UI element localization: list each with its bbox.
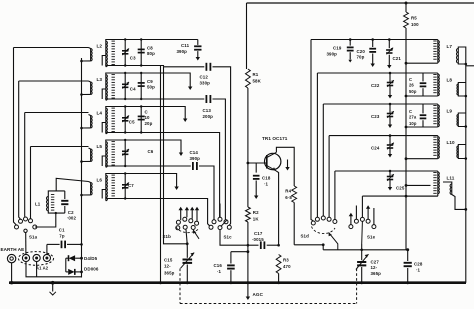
terminal A1: [33, 254, 40, 261]
switch S1e contacts: [349, 225, 353, 229]
wire: L8 row drop to S1d: [316, 73, 318, 217]
wire: S1b wiper to C15: [186, 229, 187, 243]
wire: L7 row top: [311, 39, 438, 41]
wire: C27 gang dashed link: [356, 269, 358, 304]
transformer L2: [91, 49, 93, 61]
capacitor C9: [140, 73, 142, 99]
svg-text:12-: 12-: [164, 264, 171, 269]
wire: L7 row bottom to HT bus: [437, 62, 439, 63]
capacitor C17 .0015: [247, 244, 250, 247]
wire: L4 top rail to chassis arrow: [125, 107, 185, 119]
wire: L11 row top: [335, 170, 438, 172]
svg-text:C: C: [409, 77, 412, 82]
svg-text:D4/D5: D4/D5: [84, 256, 98, 261]
wire: supply drop to R1 and base: [246, 3, 248, 69]
wire: L6 top rail to chassis arrow: [125, 174, 176, 187]
svg-text:L11: L11: [447, 176, 455, 181]
wire: L4 bottom rail to S1c: [106, 133, 219, 218]
wire: L2 top rail to C11: [125, 39, 198, 41]
wire: aerial selector bus 2: [19, 81, 21, 219]
capacitor C19 390p: [349, 40, 351, 46]
svg-text:L8: L8: [447, 78, 453, 83]
svg-text:C: C: [409, 109, 412, 114]
wire: HT bus: [405, 28, 407, 250]
wire: L10 row bottom to HT bus: [437, 157, 439, 159]
wire: rail to L2 primary: [14, 47, 89, 49]
svg-text:C23: C23: [371, 114, 380, 119]
svg-text:C17: C17: [254, 231, 263, 236]
trimmer capacitor C24: [389, 136, 391, 145]
svg-text:80p: 80p: [147, 51, 155, 56]
wire: second drop to S1b output: [164, 67, 188, 244]
capacitor C14 390p: [192, 162, 194, 170]
svg-text:S1c: S1c: [224, 234, 233, 239]
trimmer capacitor C21: [388, 40, 390, 49]
svg-text:L6: L6: [97, 178, 103, 183]
svg-text:EARTH AE: EARTH AE: [1, 247, 25, 252]
wire: AGC feed: [247, 252, 249, 297]
wire: output bus: [465, 47, 467, 283]
transistor TR1 OC171: [265, 153, 281, 169]
svg-text:L10: L10: [447, 140, 456, 145]
svg-text:L5: L5: [97, 144, 103, 149]
svg-text:20p: 20p: [145, 121, 153, 126]
transformer L5: [91, 149, 93, 161]
capacitor C27a 10p in L9: [422, 104, 424, 113]
wire: oscillator switch common line: [323, 249, 408, 251]
wire: C15 gang dashed link: [179, 269, 181, 304]
svg-text:C27: C27: [371, 259, 380, 264]
svg-text:R2: R2: [253, 210, 259, 215]
wire: L5 top rail to chassis arrow: [125, 140, 181, 153]
svg-text:L1: L1: [35, 201, 41, 206]
wire: L1 riser: [55, 190, 57, 192]
wire: output stub to edge: [466, 65, 474, 67]
wire: L2 bottom rail: [106, 65, 160, 67]
svg-text:C6: C6: [148, 149, 154, 154]
wire: earth to chassis: [11, 263, 13, 283]
svg-text:C16: C16: [214, 263, 223, 268]
resistor R4 6.8 in collector line: [292, 186, 297, 203]
svg-text:26: 26: [409, 83, 414, 88]
wire: R4 to S1d node: [294, 245, 323, 250]
wire: rail to L5 primary: [31, 146, 89, 148]
wire: L9 row bottom to HT bus: [437, 126, 439, 128]
wire: base node to R2: [247, 163, 249, 207]
svg-text:A1 A2: A1 A2: [36, 265, 49, 270]
wire: L10 row top: [329, 135, 438, 137]
svg-text:C24: C24: [371, 146, 380, 151]
wire: A2 to C1 wire: [46, 244, 48, 254]
variable capacitor C27 12-365p: [361, 244, 363, 260]
svg-text:C20: C20: [357, 49, 366, 54]
capacitor C28 .1: [407, 250, 409, 261]
svg-text:365p: 365p: [164, 270, 175, 275]
switch S1e contact risers: [350, 216, 352, 225]
wire: top supply rail: [247, 2, 474, 4]
trimmer capacitor C3: [124, 40, 126, 66]
svg-text:C13: C13: [203, 108, 212, 113]
wire: aerial selector bus 1: [14, 48, 17, 226]
wire: rail to L4 primary: [25, 112, 89, 114]
switch S1c rotor: [218, 226, 222, 230]
svg-text:R1: R1: [253, 72, 259, 77]
wire: L9 row drop to S1d: [322, 104, 324, 216]
svg-text:AGC: AGC: [253, 292, 264, 297]
wire: S1c wiper output: [220, 230, 248, 246]
transformer L10: [433, 136, 436, 138]
wire: jog to C12 wire: [161, 66, 164, 67]
coil L9 secondary winding: [457, 115, 458, 126]
svg-text:C9: C9: [147, 79, 153, 84]
wire: primary return bus: [81, 58, 83, 278]
svg-text:12-: 12-: [371, 265, 378, 270]
wire: L8 row bottom to HT bus: [437, 95, 439, 97]
svg-text:200p: 200p: [203, 114, 214, 119]
terminal A: [22, 254, 29, 261]
trimmer capacitor C22: [389, 73, 391, 82]
transformer L8: [433, 74, 436, 76]
capacitor C20 70p: [372, 40, 374, 48]
svg-text:27a: 27a: [409, 115, 417, 120]
diode D5: [66, 271, 68, 273]
svg-text:C2: C2: [68, 210, 74, 215]
wire: L11 row bottom to HT bus: [437, 194, 439, 196]
switch S1b contact risers with arrows: [180, 210, 182, 220]
capacitor C18 .1: [255, 163, 257, 173]
svg-text:C4: C4: [130, 87, 136, 92]
diode D4: [66, 257, 69, 259]
wire: collector to oscillator line: [293, 203, 295, 245]
svg-text:C21: C21: [393, 56, 402, 61]
svg-text:C25: C25: [396, 186, 405, 191]
svg-text:C14: C14: [190, 150, 199, 155]
wire: L11 bottom to S1e: [362, 195, 437, 197]
wire: L8 row top: [317, 72, 437, 74]
svg-text:C15: C15: [164, 258, 173, 263]
coil L1: [46, 197, 48, 211]
wire: bottom chassis rail: [9, 281, 466, 284]
wire: long drop to chassis rail: [160, 66, 162, 283]
svg-text:L2: L2: [97, 44, 103, 49]
trimmer capacitor C4: [124, 73, 126, 99]
transformer L3: [91, 82, 93, 94]
svg-text:C11: C11: [181, 43, 190, 48]
resistor R1 58K: [246, 69, 251, 88]
svg-text:58K: 58K: [253, 78, 262, 83]
capacitor C8: [140, 40, 142, 66]
svg-text:C12: C12: [200, 74, 209, 79]
svg-text:50p: 50p: [409, 89, 417, 94]
coil L11 secondary winding: [450, 184, 452, 195]
wire: aerial selector bus 3: [24, 113, 26, 217]
svg-text:C18: C18: [262, 176, 271, 181]
terminal EARTH: [7, 254, 15, 262]
wire: rail to L3 primary: [19, 80, 89, 82]
svg-text:·1: ·1: [416, 267, 421, 272]
transformer L7: [433, 40, 436, 42]
svg-text:390p: 390p: [190, 156, 201, 161]
svg-text:R5: R5: [411, 16, 417, 21]
terminal A2: [43, 254, 50, 261]
capacitor C12 330p in wire to S1c: [164, 66, 205, 68]
transformer L6: [91, 183, 93, 195]
svg-text:100: 100: [411, 22, 419, 27]
trimmer capacitor C6: [124, 140, 126, 166]
wire: L11 tap to HT bus: [406, 184, 431, 186]
wire: aerial selector bus 4: [30, 147, 32, 219]
trimmer capacitor C7: [124, 174, 126, 199]
variable capacitor C15 12-365p: [186, 249, 188, 258]
svg-text:C28: C28: [414, 262, 423, 267]
resistor R3 470: [276, 255, 281, 274]
switch S1b wiper: [193, 230, 199, 239]
transformer L9: [433, 105, 436, 107]
wire: L5 bottom rail with C14 to S1c: [106, 165, 191, 167]
svg-text:TR1 OC171: TR1 OC171: [262, 136, 288, 141]
switch S1a wiper: [24, 229, 27, 232]
wire: emitter drop: [276, 171, 279, 245]
svg-text:R4: R4: [285, 189, 291, 194]
coil L7 secondary winding: [456, 49, 458, 64]
wire: L7 row drop to S1d: [311, 40, 313, 222]
coil L10 secondary winding: [457, 146, 458, 158]
switch S1c wiper: [221, 220, 227, 226]
svg-text:C7: C7: [128, 183, 134, 188]
capacitor C1 7p: [47, 243, 60, 245]
wire: L1 bottom to S1a: [35, 213, 56, 227]
wire: A terminal drops: [26, 262, 82, 277]
transformer L11: [433, 172, 436, 174]
svg-text:L9: L9: [447, 109, 453, 114]
terminal group A1 A2 dashed outline: [18, 252, 53, 266]
switch S1d rotor dashed arc: [312, 227, 336, 234]
ground: chassis spur: [51, 281, 55, 285]
svg-text:7p: 7p: [59, 233, 65, 238]
switch S1d contacts: [311, 221, 315, 225]
wire: S1c rotor stub: [219, 204, 221, 218]
svg-text:·002: ·002: [67, 216, 77, 221]
trimmer capacitor C5: [124, 107, 126, 133]
svg-text:390p: 390p: [327, 52, 338, 57]
svg-text:1K: 1K: [253, 216, 260, 221]
resistor R5 100: [405, 2, 408, 5]
svg-text:365p: 365p: [371, 271, 382, 276]
svg-text:C8: C8: [147, 45, 153, 50]
capacitor C16 .1: [231, 251, 248, 253]
wire: R2 to C17 node: [247, 222, 249, 252]
capacitor C2 .002: [64, 191, 66, 199]
switch S1d wiper: [329, 233, 338, 250]
capacitor C13 200p: [205, 95, 207, 103]
svg-text:6·8: 6·8: [285, 195, 292, 200]
trimmer capacitor C25: [389, 171, 391, 176]
svg-text:390p: 390p: [177, 49, 188, 54]
wire: collector riser: [276, 147, 294, 186]
chassis arrow by emitter: [287, 160, 289, 168]
svg-text:L4: L4: [97, 111, 103, 116]
svg-text:70p: 70p: [357, 55, 365, 60]
wire: L6 bottom rail to S1c: [106, 199, 209, 226]
svg-text:·1: ·1: [217, 269, 222, 274]
svg-text:DD006: DD006: [84, 266, 99, 271]
svg-text:C22: C22: [371, 83, 380, 88]
transformer L4: [91, 116, 93, 128]
svg-text:470: 470: [283, 264, 291, 269]
svg-text:·1: ·1: [264, 181, 269, 186]
svg-text:S1a: S1a: [29, 235, 38, 240]
svg-text:·0015: ·0015: [252, 237, 264, 242]
svg-text:C19: C19: [333, 46, 342, 51]
svg-text:10: 10: [145, 115, 151, 120]
svg-text:10p: 10p: [409, 121, 417, 126]
svg-text:50p: 50p: [147, 85, 155, 90]
svg-text:R3: R3: [283, 258, 289, 263]
wire: gang dashed bar: [180, 303, 357, 305]
capacitor C11 390p: [197, 40, 199, 45]
wire: R1 to base node: [247, 88, 249, 163]
switch S1e wiper: [361, 221, 364, 244]
wire: L9 row top: [323, 103, 438, 105]
switch S1b contacts: [176, 220, 180, 224]
svg-text:C3: C3: [130, 56, 136, 61]
wire: L3 bottom rail with C13 to S1c: [106, 98, 204, 100]
wire: rail from L1 to L6 primary: [56, 178, 88, 191]
switch S1a contacts: [15, 225, 19, 229]
capacitor C10: [140, 107, 142, 133]
svg-text:L7: L7: [447, 44, 453, 49]
wire: L11 row drop to S1d: [334, 171, 336, 220]
switch S1c contacts: [209, 225, 213, 229]
svg-text:330p: 330p: [200, 80, 211, 85]
wire: L3 top rail to chassis arrow: [125, 73, 190, 87]
switch S1b rotor dashed arc: [176, 227, 199, 233]
coil L8 secondary winding: [457, 84, 458, 95]
svg-text:S1d: S1d: [301, 234, 310, 239]
svg-text:S1e: S1e: [367, 235, 376, 240]
trimmer capacitor C23: [389, 104, 391, 113]
svg-text:L3: L3: [97, 77, 103, 82]
svg-text:C5: C5: [129, 120, 135, 125]
wire: base lead: [248, 162, 267, 164]
resistor R2 1K: [246, 207, 251, 222]
svg-text:C1: C1: [59, 228, 65, 233]
svg-text:S1b: S1b: [163, 234, 172, 239]
capacitor C26 50p in L8: [422, 73, 424, 81]
wire: diode anode link: [65, 258, 67, 272]
wire: L10 row drop to S1d: [328, 136, 330, 218]
